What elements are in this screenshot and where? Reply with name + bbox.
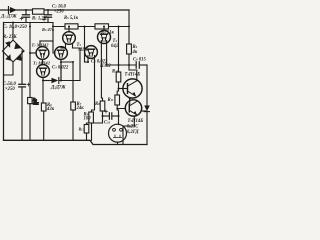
svg-text:С9 815: С9 815 xyxy=(133,58,147,63)
resistor R4 (horizontal on mid wire) xyxy=(95,24,109,29)
svg-text:4к: 4к xyxy=(132,50,138,55)
svg-text:Д1 Д7Ж: Д1 Д7Ж xyxy=(0,15,17,20)
wire top rail xyxy=(0,9,129,11)
capacitor C3 (in x=22 line) xyxy=(19,83,30,87)
wire top-right drop to R9 xyxy=(128,10,130,44)
transistor T4 upper right xyxy=(98,31,111,44)
diode D1 xyxy=(9,7,17,14)
wire R10 top to C9 row xyxy=(118,27,120,73)
wire base feed T1 xyxy=(30,52,36,54)
wire vertical x=53 xyxy=(53,27,55,54)
wire bottom rail xyxy=(4,140,148,144)
wire R10-R12 link xyxy=(117,82,118,95)
transistor T5 xyxy=(123,79,142,98)
wire right border upper xyxy=(146,65,148,106)
transistor T6 xyxy=(125,100,141,116)
svg-text:С5 0,022: С5 0,022 xyxy=(91,60,108,65)
resistor R6 (B1) xyxy=(41,103,46,111)
svg-text:04Д: 04Д xyxy=(111,44,120,49)
wire left border xyxy=(3,23,5,141)
wire M2/T4 cross links xyxy=(85,61,89,63)
wire T5 collector up xyxy=(129,65,137,80)
svg-text:100: 100 xyxy=(84,117,92,122)
resistor R13 xyxy=(84,125,89,134)
wire U1 legs xyxy=(61,44,66,48)
wire T5 emitter to T6 base xyxy=(129,98,131,105)
wire R9r bottom junction xyxy=(128,54,130,65)
capacitor C9 xyxy=(136,62,139,68)
capacitor C1 xyxy=(20,10,30,23)
wire T6 emitter down xyxy=(123,116,134,144)
resistor R1 xyxy=(33,9,45,14)
svg-text:R2 27К: R2 27К xyxy=(3,35,18,40)
diode D2 xyxy=(52,78,59,84)
svg-text:Т4П14Б: Т4П14Б xyxy=(125,73,141,78)
svg-text:Д2Д7Ж: Д2Д7Ж xyxy=(50,86,66,91)
svg-text:Т5П14Б: Т5П14Б xyxy=(128,119,144,124)
wire right border lower xyxy=(146,112,148,145)
transistor M2 xyxy=(85,46,98,59)
svg-text:43к: 43к xyxy=(46,107,55,112)
resistor R8 (B3b) xyxy=(100,101,105,111)
resistor R10 (B4) xyxy=(116,72,121,82)
wire vertical x=43.7 (T2 emitter chain to R6) xyxy=(42,78,44,104)
resistor R12 (B5) xyxy=(115,95,120,105)
resistor R9 (B3) xyxy=(89,112,94,123)
capacitor C10 xyxy=(103,110,119,119)
svg-text:24к: 24к xyxy=(76,106,85,111)
svg-text:R5 5,1к: R5 5,1к xyxy=(64,16,79,21)
svg-text:Т2 МП42: Т2 МП42 xyxy=(33,61,51,66)
wire B2 chain x=73 xyxy=(72,62,74,102)
svg-text:МП6: МП6 xyxy=(77,48,89,53)
transistor T1 xyxy=(36,47,49,60)
svg-text:×250: ×250 xyxy=(54,10,64,15)
wire diode row y=80.5 xyxy=(43,80,52,82)
resistor R5 (horizontal on mid wire) xyxy=(65,24,78,29)
wire B1 bottom to rail xyxy=(61,62,73,81)
svg-text:0,2ЗС: 0,2ЗС xyxy=(127,125,139,130)
svg-text:×250: ×250 xyxy=(5,87,15,92)
resistor R4b xyxy=(28,98,32,104)
wire bridge right vertex down xyxy=(22,51,24,140)
wire T1 top xyxy=(39,41,41,47)
svg-text:R3 47к: R3 47к xyxy=(42,27,55,32)
svg-text:Т1 МП42: Т1 МП42 xyxy=(32,42,50,47)
transistor U1 upper xyxy=(63,32,76,45)
wire T4 top xyxy=(103,27,105,31)
speaker capsule xyxy=(109,124,127,144)
wire C9 row xyxy=(107,64,136,66)
transistor T2a middle xyxy=(55,47,68,60)
wire T1-T2 link xyxy=(42,60,44,65)
wire bridge bottom to left border xyxy=(4,62,14,75)
svg-text:0,2ГД: 0,2ГД xyxy=(127,130,139,135)
bridge rectifier xyxy=(3,23,25,63)
wire T5 base feed xyxy=(119,88,128,90)
svg-text:R4 51к: R4 51к xyxy=(101,31,115,36)
resistor R9r (top right) xyxy=(127,44,132,54)
wire T6 collector xyxy=(141,110,147,112)
diode D3 right border xyxy=(144,106,150,112)
svg-text:R1 1,2К: R1 1,2К xyxy=(32,17,48,22)
resistor R7 (B2) xyxy=(71,102,76,110)
junction dots xyxy=(12,9,131,117)
wire R12 bottom xyxy=(117,105,125,109)
wire M2 bottom xyxy=(87,56,89,63)
wire B3 bottom xyxy=(91,123,93,140)
svg-text:П302: П302 xyxy=(99,64,111,69)
wire U1 top xyxy=(68,27,70,32)
capacitor C2 xyxy=(43,10,52,23)
wire T4 down chain xyxy=(101,41,102,102)
svg-text:41к: 41к xyxy=(32,102,39,106)
wire M1 bottom down xyxy=(60,60,62,81)
wire vertical x=30 xyxy=(29,23,31,98)
transistor T2 xyxy=(37,65,50,78)
wire rail2 xyxy=(4,23,130,27)
wire B3b bottom to C10 xyxy=(87,111,103,125)
svg-text:С4 0,022: С4 0,022 xyxy=(52,66,69,71)
